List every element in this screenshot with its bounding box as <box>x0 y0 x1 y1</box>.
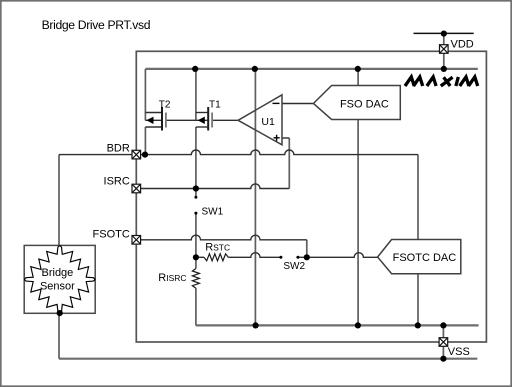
svg-text:T1: T1 <box>209 99 221 110</box>
svg-text:VSS: VSS <box>448 346 470 358</box>
svg-text:VDD: VDD <box>451 39 474 51</box>
svg-text:SW1: SW1 <box>202 207 224 218</box>
svg-text:FSO DAC: FSO DAC <box>340 99 389 111</box>
svg-text:RISRC: RISRC <box>158 272 186 284</box>
svg-text:ISRC: ISRC <box>104 176 130 188</box>
svg-text:Bridge: Bridge <box>42 267 74 279</box>
svg-text:RSTC: RSTC <box>205 242 230 254</box>
svg-text:BDR: BDR <box>107 143 130 155</box>
svg-text:T2: T2 <box>159 99 171 110</box>
svg-text:FSOTC DAC: FSOTC DAC <box>393 252 457 264</box>
svg-text:Sensor: Sensor <box>40 280 75 292</box>
svg-text:SW2: SW2 <box>283 261 305 272</box>
svg-text:FSOTC: FSOTC <box>93 229 130 241</box>
svg-text:U1: U1 <box>261 116 275 128</box>
svg-text:Bridge Drive PRT.vsd: Bridge Drive PRT.vsd <box>42 18 151 32</box>
